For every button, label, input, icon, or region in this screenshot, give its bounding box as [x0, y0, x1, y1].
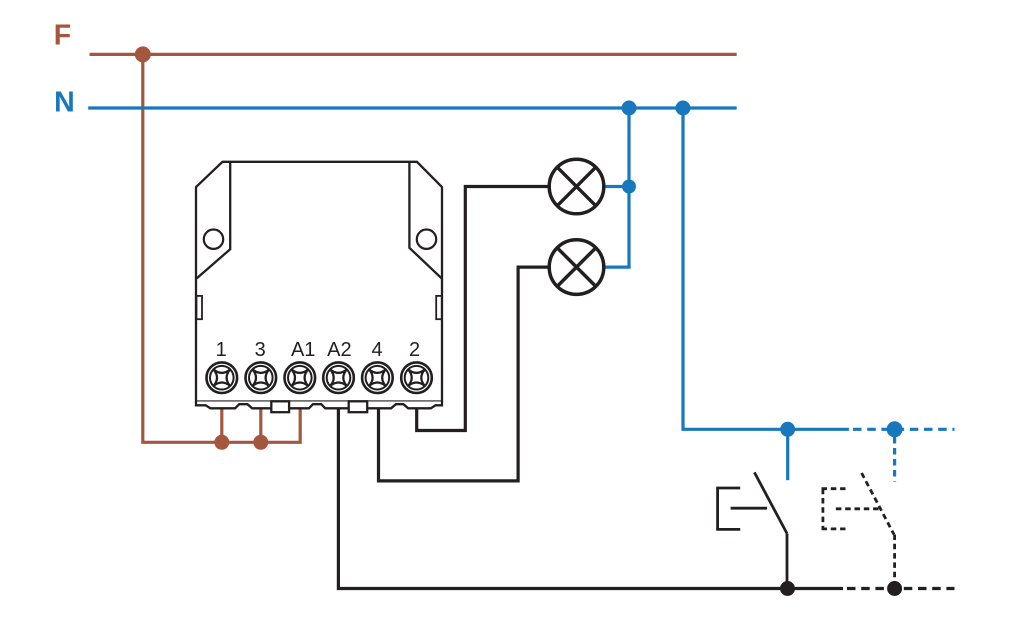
module right ear hole [417, 230, 436, 249]
brown wire: F drop to bottom feed [143, 54, 300, 442]
blue wire: link to lamp L1 [604, 185, 631, 188]
junction dot on N line at lamp drop [622, 101, 637, 116]
terminal screw A2 [323, 362, 354, 393]
brown wire: riser to terminal 3 [259, 409, 262, 442]
switch S2 actuator E (dashed) [822, 489, 879, 529]
junction dot terminal 3 feed [253, 435, 268, 450]
terminal screw 4 [362, 362, 393, 393]
svg-text:3: 3 [255, 339, 266, 361]
module cable clamp tab left [271, 401, 289, 412]
brown wire: riser to terminal 1 [220, 409, 223, 442]
blue stub to switch S1 [786, 429, 789, 480]
phase line F [90, 53, 737, 56]
svg-text:F: F [54, 20, 71, 52]
junction dot on N line at switch drop [676, 101, 691, 116]
black wire: terminal 4 to lamp L2 [379, 267, 551, 481]
svg-text:A1: A1 [291, 339, 315, 361]
lamp L2 [549, 240, 604, 295]
terminal screw 3 [245, 362, 276, 393]
blue wire: drop to lamps [627, 108, 630, 267]
relay module U1 body [196, 162, 442, 402]
svg-text:A2: A2 [327, 339, 351, 361]
terminal screw 2 [401, 362, 432, 393]
switch S1 push-button [754, 472, 787, 588]
terminal screw 1 [207, 362, 238, 393]
svg-text:1: 1 [216, 339, 227, 361]
blue dashed extension of switch bus [853, 428, 955, 431]
lamp L1 [549, 159, 604, 214]
black wire: terminal 2 to lamp L1 [417, 187, 551, 431]
junction dot switch S1 bus [780, 422, 795, 437]
blue dashed stub to switch S2 [893, 437, 896, 482]
module left ear hole [204, 230, 223, 249]
junction dot switch S2 bus [887, 421, 903, 437]
svg-text:N: N [54, 87, 75, 119]
terminal screw A1 [285, 362, 316, 393]
svg-text:2: 2 [409, 339, 420, 361]
black wire: terminal A2 to switch bus [338, 409, 843, 589]
neutral line N [88, 106, 737, 109]
junction dot terminal 1 feed [214, 435, 229, 450]
module bottom feet strip [196, 402, 442, 409]
junction dot switch S1 return [780, 581, 795, 596]
junction dot at lamp L1 link [622, 180, 636, 194]
module cable clamp tab right [349, 401, 368, 412]
module right mounting ear [409, 162, 441, 279]
junction dot on F line [135, 46, 151, 62]
blue wire: drop to switch bus [683, 108, 849, 429]
module left side clip [197, 296, 203, 319]
module right side clip [436, 296, 442, 319]
black dashed extension of switch return bus [847, 587, 955, 590]
switch S1 actuator E [716, 488, 767, 529]
module left mounting ear [197, 162, 231, 279]
junction dot switch S2 return [887, 581, 902, 596]
switch S2 push-button (dashed) [862, 473, 895, 589]
blue wire: link to lamp L2 [604, 266, 631, 269]
svg-text:4: 4 [371, 339, 382, 361]
